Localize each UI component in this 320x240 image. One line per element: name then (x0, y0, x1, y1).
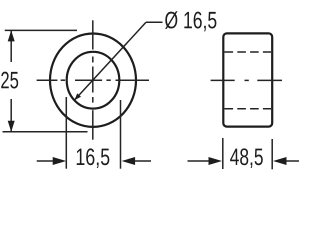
leader arrowhead on inner circle (75, 93, 82, 100)
dimension 16,5: right arrow line (134, 160, 151, 162)
label 48,5 (230, 148, 263, 168)
front view: vertical center line (92, 20, 94, 139)
dimension 25: dimension line lower segment (10, 99, 12, 132)
front view: horizontal center line (37, 79, 149, 81)
label 25 (1, 72, 18, 89)
side view: hidden line top (hole) (225, 51, 272, 53)
side view: horizontal center line (211, 79, 282, 81)
front view: outer ring circle (50, 33, 136, 126)
front view: inner hole circle (67, 52, 120, 109)
dimension 16,5: left extension line (65, 97, 67, 169)
label Ø 16,5 (165, 11, 216, 31)
dimension 48,5: right arrow line (286, 160, 299, 162)
dimension 25: top extension line (5, 29, 77, 31)
dimension 48,5: left arrow line (188, 160, 211, 162)
side view: body rectangle (223, 33, 272, 126)
dimension 25: dimension line upper segment (10, 30, 12, 62)
side view: hidden line bottom (hole) (225, 108, 272, 110)
label 16,5 (77, 148, 110, 168)
dimension 16,5: right extension line (120, 100, 122, 169)
dimension 25: up arrowhead (8, 30, 15, 41)
dimension 48,5: right extension line (271, 139, 273, 169)
dimension 48,5: left extension line (222, 138, 224, 169)
dimension 16,5: left arrow line (37, 160, 53, 162)
dimension 25: down arrowhead (8, 121, 15, 132)
leader line for diameter callout (74, 22, 146, 100)
dimension 25: bottom extension line (3, 131, 88, 133)
